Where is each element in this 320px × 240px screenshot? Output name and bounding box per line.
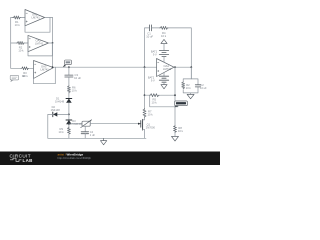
wire op2 input [11, 42, 17, 44]
wire op4 output [174, 66, 191, 68]
svg-text:10 k: 10 k [72, 89, 78, 93]
svg-text:10 uF: 10 uF [146, 35, 153, 39]
wire op3 input [11, 67, 21, 69]
svg-text:http://circuitlab.com/c6909jb: http://circuitlab.com/c6909jb [58, 156, 92, 160]
svg-text:2N7000: 2N7000 [146, 125, 156, 129]
ground GND1 [187, 94, 194, 98]
wire R3 to op-amp [29, 67, 33, 69]
svg-text:artist / WienBridge: artist / WienBridge [58, 152, 84, 156]
wire left input bus [10, 18, 12, 69]
wire D1 to node [68, 103, 70, 120]
wire op2 output [49, 42, 53, 44]
ground flag up (battery top) [161, 39, 167, 43]
wire R2 to op-amp [24, 42, 28, 44]
wire C1 to R4 [151, 27, 159, 29]
ground flag down (battery bottom) [161, 85, 167, 89]
svg-text:10 k: 10 k [59, 130, 65, 134]
node output junction [174, 66, 176, 68]
svg-text:LM741: LM741 [163, 67, 172, 71]
wire D3 to R9 [68, 124, 70, 127]
resistor R7 [143, 108, 146, 117]
ground GND3 (bottom rail) [100, 138, 106, 145]
resistor R4 [160, 26, 169, 29]
svg-text:LM741: LM741 [41, 67, 50, 71]
svg-text:9 V: 9 V [151, 79, 155, 83]
node diode chain junction [68, 114, 70, 116]
wire left from node [57, 113, 69, 115]
svg-text:1N4148: 1N4148 [51, 108, 61, 112]
wire op1 input [11, 17, 13, 19]
wire C3 to R6 [68, 77, 70, 85]
node op2 output junction [52, 42, 54, 44]
potentiometer P1 [81, 120, 92, 128]
net flag VOUT [175, 101, 188, 107]
resistor R8 [174, 125, 177, 132]
wire bottom rail [48, 137, 146, 139]
wire R1 to op-amp [21, 17, 25, 19]
capacitor C1 [149, 25, 151, 31]
svg-text:10 k: 10 k [152, 101, 158, 105]
wire pot row [69, 123, 82, 126]
svg-text:9 V: 9 V [153, 53, 157, 57]
resistor R3 [21, 67, 29, 70]
wire flag leader [150, 95, 178, 107]
wire op1 output [45, 17, 53, 19]
svg-text:10 k: 10 k [161, 34, 167, 38]
svg-text:LAB: LAB [23, 158, 33, 163]
svg-text:1N4148: 1N4148 [55, 99, 65, 103]
wire main output row [54, 66, 157, 68]
wire R9 to rail [68, 135, 70, 139]
resistor R2 [17, 42, 25, 45]
svg-text:10 uF: 10 uF [74, 76, 81, 80]
wire R5 row [145, 94, 150, 96]
wire R5 to output drop [160, 94, 175, 96]
comment bubble annotation [10, 75, 18, 81]
op-amp OA3 [34, 61, 54, 79]
capacitor C2 (parallel) [195, 85, 200, 87]
tiny gear glyph [22, 75, 24, 76]
wire BAT2 to ground [163, 82, 165, 84]
wire R6 to D1 [68, 93, 70, 98]
wire R8 to ground [174, 132, 176, 136]
node gain network junction [144, 94, 146, 96]
wire BAT1 to V+ pin [163, 56, 165, 62]
capacitor C4 [81, 126, 95, 138]
wire op3 feedback loop [34, 67, 56, 84]
net flag VF1 [63, 60, 71, 67]
footer bar [0, 152, 220, 166]
wire op1 feedback loop [25, 18, 50, 33]
node main junction (Wien tap) [68, 66, 70, 68]
svg-text:LM741: LM741 [35, 41, 44, 45]
node pot tap [68, 123, 70, 125]
diode D2 [51, 105, 61, 117]
wire RC block frame [183, 67, 198, 94]
battery BAT2 [148, 76, 169, 83]
node op3 output junction [52, 66, 54, 68]
capacitor C3 [65, 75, 73, 77]
svg-text:1 uF: 1 uF [90, 133, 96, 137]
diode D3 [66, 119, 82, 126]
resistor R5 [149, 94, 159, 97]
resistor R10 (parallel) [182, 82, 185, 89]
svg-text:10 k: 10 k [15, 23, 21, 27]
svg-text:10 uF: 10 uF [200, 86, 207, 90]
wire pot to gate [90, 123, 141, 125]
wire D2 to corner and down [48, 114, 53, 138]
wire down to C3 [68, 67, 70, 75]
diode D1 [55, 96, 72, 103]
resistor R6 [67, 85, 70, 93]
resistor R1 [13, 16, 21, 19]
battery BAT1 [151, 50, 169, 57]
wire to BAT1 [163, 44, 165, 51]
wire V- pin to BAT2 [163, 72, 165, 76]
svg-text:10 k: 10 k [148, 112, 154, 116]
svg-text:LM741: LM741 [32, 16, 41, 20]
wire output drop [174, 67, 176, 125]
node RC block top [190, 66, 192, 68]
wire riser down to gain node [144, 67, 146, 108]
op-amp OA2 [28, 35, 49, 51]
wire output bus down [52, 18, 54, 68]
wire R4 to right corner and down [168, 28, 191, 79]
svg-text:10 k: 10 k [18, 49, 24, 53]
node riser main row [144, 66, 146, 68]
wire op2 feedback loop [28, 43, 52, 56]
node output R5 junction [174, 94, 176, 96]
svg-text:10 k: 10 k [186, 86, 192, 90]
ground GND2 [172, 136, 179, 141]
op-amp OA4 [157, 59, 175, 77]
op-amp OA1 [25, 10, 45, 26]
wire feedback riser [145, 28, 150, 67]
svg-text:10 k: 10 k [178, 129, 184, 133]
transistor Q1 MOSFET [138, 118, 155, 139]
resistor R9 [67, 127, 70, 135]
